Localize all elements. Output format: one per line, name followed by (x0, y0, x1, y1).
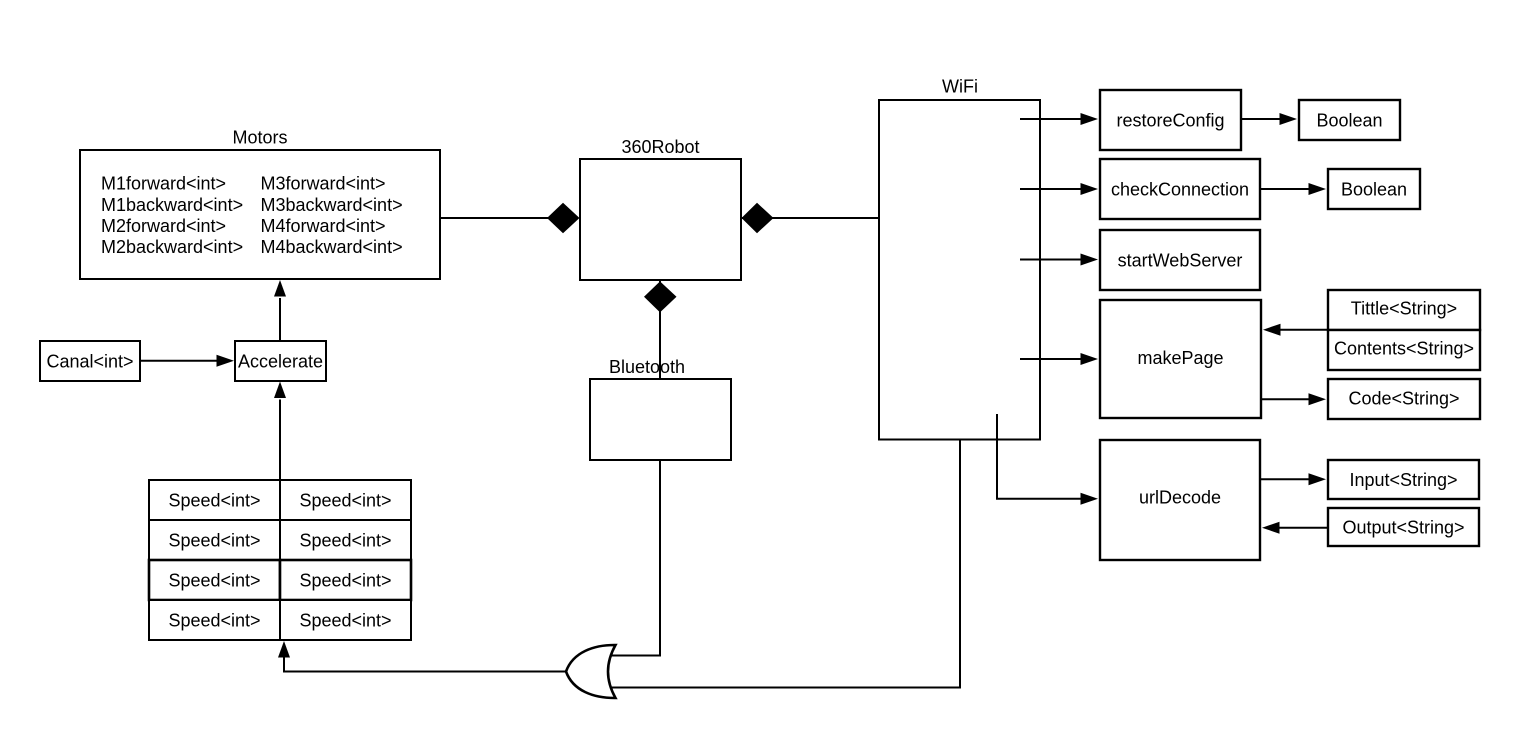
svg-text:urlDecode: urlDecode (1139, 488, 1221, 508)
wire Motors to 360Robot (440, 217, 550, 219)
arrow into Speed table bottom (278, 641, 290, 658)
arrow into makePage right (1263, 324, 1281, 336)
svg-text:Bluetooth: Bluetooth (609, 357, 685, 377)
or-gate (566, 645, 616, 698)
wire WiFi to checkConnection (1020, 188, 1082, 190)
svg-text:M1backward<int>: M1backward<int> (101, 195, 243, 215)
arrow into Accelerate left (217, 355, 235, 367)
wire WiFi to makePage (1020, 358, 1082, 360)
box makePage (1100, 300, 1261, 418)
svg-text:M2backward<int>: M2backward<int> (101, 237, 243, 257)
wire WiFi bottom to OR gate bottom input (612, 440, 960, 688)
Speed table cells (149, 480, 411, 640)
svg-text:Tittle<String>: Tittle<String> (1351, 299, 1457, 319)
box Input (1328, 460, 1479, 499)
arrow into urlDecode (1081, 493, 1099, 505)
wire urlDecode to Input (1260, 478, 1310, 480)
diamond left of 360Robot (547, 203, 580, 233)
box Boolean second (1328, 169, 1420, 209)
svg-text:checkConnection: checkConnection (1111, 180, 1249, 200)
wire Canal to Accelerate (140, 360, 218, 362)
svg-text:Speed<int>: Speed<int> (299, 491, 391, 511)
box Output (1328, 508, 1479, 546)
box 360Robot (580, 137, 741, 280)
svg-text:360Robot: 360Robot (621, 137, 699, 157)
box startWebServer (1100, 230, 1260, 290)
wire Accelerate to Motors (279, 298, 281, 341)
svg-text:Speed<int>: Speed<int> (168, 611, 260, 631)
svg-text:Input<String>: Input<String> (1349, 470, 1457, 490)
arrow into Boolean (1280, 113, 1298, 125)
wire makePage to Code (1261, 398, 1310, 400)
svg-text:Code<String>: Code<String> (1348, 389, 1459, 409)
svg-text:M4backward<int>: M4backward<int> (261, 237, 403, 257)
svg-text:Speed<int>: Speed<int> (168, 531, 260, 551)
box Accelerate (235, 341, 326, 381)
arrow into Accelerate bottom (274, 382, 286, 399)
wire Output to urlDecode (1278, 527, 1328, 529)
arrow into Boolean second (1309, 183, 1327, 195)
box checkConnection (1100, 159, 1260, 219)
svg-text:M3backward<int>: M3backward<int> (261, 195, 403, 215)
arrow into restoreConfig (1081, 113, 1099, 125)
box WiFi (879, 77, 1040, 440)
wire Speed table to Accelerate (279, 400, 281, 481)
svg-text:makePage: makePage (1137, 348, 1223, 368)
box urlDecode (1100, 440, 1260, 560)
arrow into Code (1309, 393, 1327, 405)
box restoreConfig (1100, 90, 1241, 150)
arrow into makePage (1081, 353, 1099, 365)
wire restoreConfig to Boolean (1241, 118, 1281, 120)
svg-text:Speed<int>: Speed<int> (299, 571, 391, 591)
arrow into Motors bottom (274, 280, 286, 297)
svg-text:M4forward<int>: M4forward<int> (261, 216, 386, 236)
wire 360Robot to WiFi (741, 217, 879, 219)
box Bluetooth (590, 357, 731, 460)
svg-text:Motors: Motors (232, 128, 287, 148)
box Motors (80, 128, 440, 280)
box Code (1328, 379, 1480, 419)
svg-text:Boolean: Boolean (1341, 180, 1407, 200)
svg-text:Speed<int>: Speed<int> (299, 531, 391, 551)
wire WiFi to restoreConfig (1020, 118, 1082, 120)
svg-text:Output<String>: Output<String> (1342, 518, 1464, 538)
box Canal (40, 341, 140, 381)
svg-text:Speed<int>: Speed<int> (299, 611, 391, 631)
diamond below 360Robot (644, 281, 677, 312)
wire Bluetooth to OR gate top input (611, 460, 660, 656)
svg-text:M1forward<int>: M1forward<int> (101, 174, 226, 194)
svg-text:Canal<int>: Canal<int> (46, 352, 133, 372)
arrow into urlDecode right (1262, 522, 1280, 534)
wire WiFi to startWebServer (1020, 259, 1082, 261)
svg-text:M2forward<int>: M2forward<int> (101, 216, 226, 236)
arrow into startWebServer (1081, 254, 1099, 266)
svg-text:Contents<String>: Contents<String> (1334, 339, 1474, 359)
diamond right of 360Robot (742, 203, 774, 233)
svg-text:M3forward<int>: M3forward<int> (261, 174, 386, 194)
arrow into checkConnection (1081, 183, 1099, 195)
table Tittle/Contents (1328, 290, 1480, 370)
svg-text:Accelerate: Accelerate (238, 352, 323, 372)
svg-text:restoreConfig: restoreConfig (1116, 111, 1224, 131)
box Boolean top (1299, 100, 1400, 140)
svg-text:WiFi: WiFi (942, 77, 978, 97)
svg-text:Speed<int>: Speed<int> (168, 491, 260, 511)
arrow into Input (1309, 473, 1327, 485)
svg-text:Speed<int>: Speed<int> (168, 571, 260, 591)
wire WiFi to urlDecode (997, 414, 1083, 499)
svg-text:startWebServer: startWebServer (1118, 251, 1243, 271)
wire OR gate output to Speed table (284, 656, 566, 672)
wire 360Robot to Bluetooth (659, 280, 661, 379)
svg-text:Boolean: Boolean (1316, 111, 1382, 131)
wire Tittle-Contents to makePage (1279, 329, 1328, 331)
wire checkConnection to Boolean (1260, 188, 1310, 190)
